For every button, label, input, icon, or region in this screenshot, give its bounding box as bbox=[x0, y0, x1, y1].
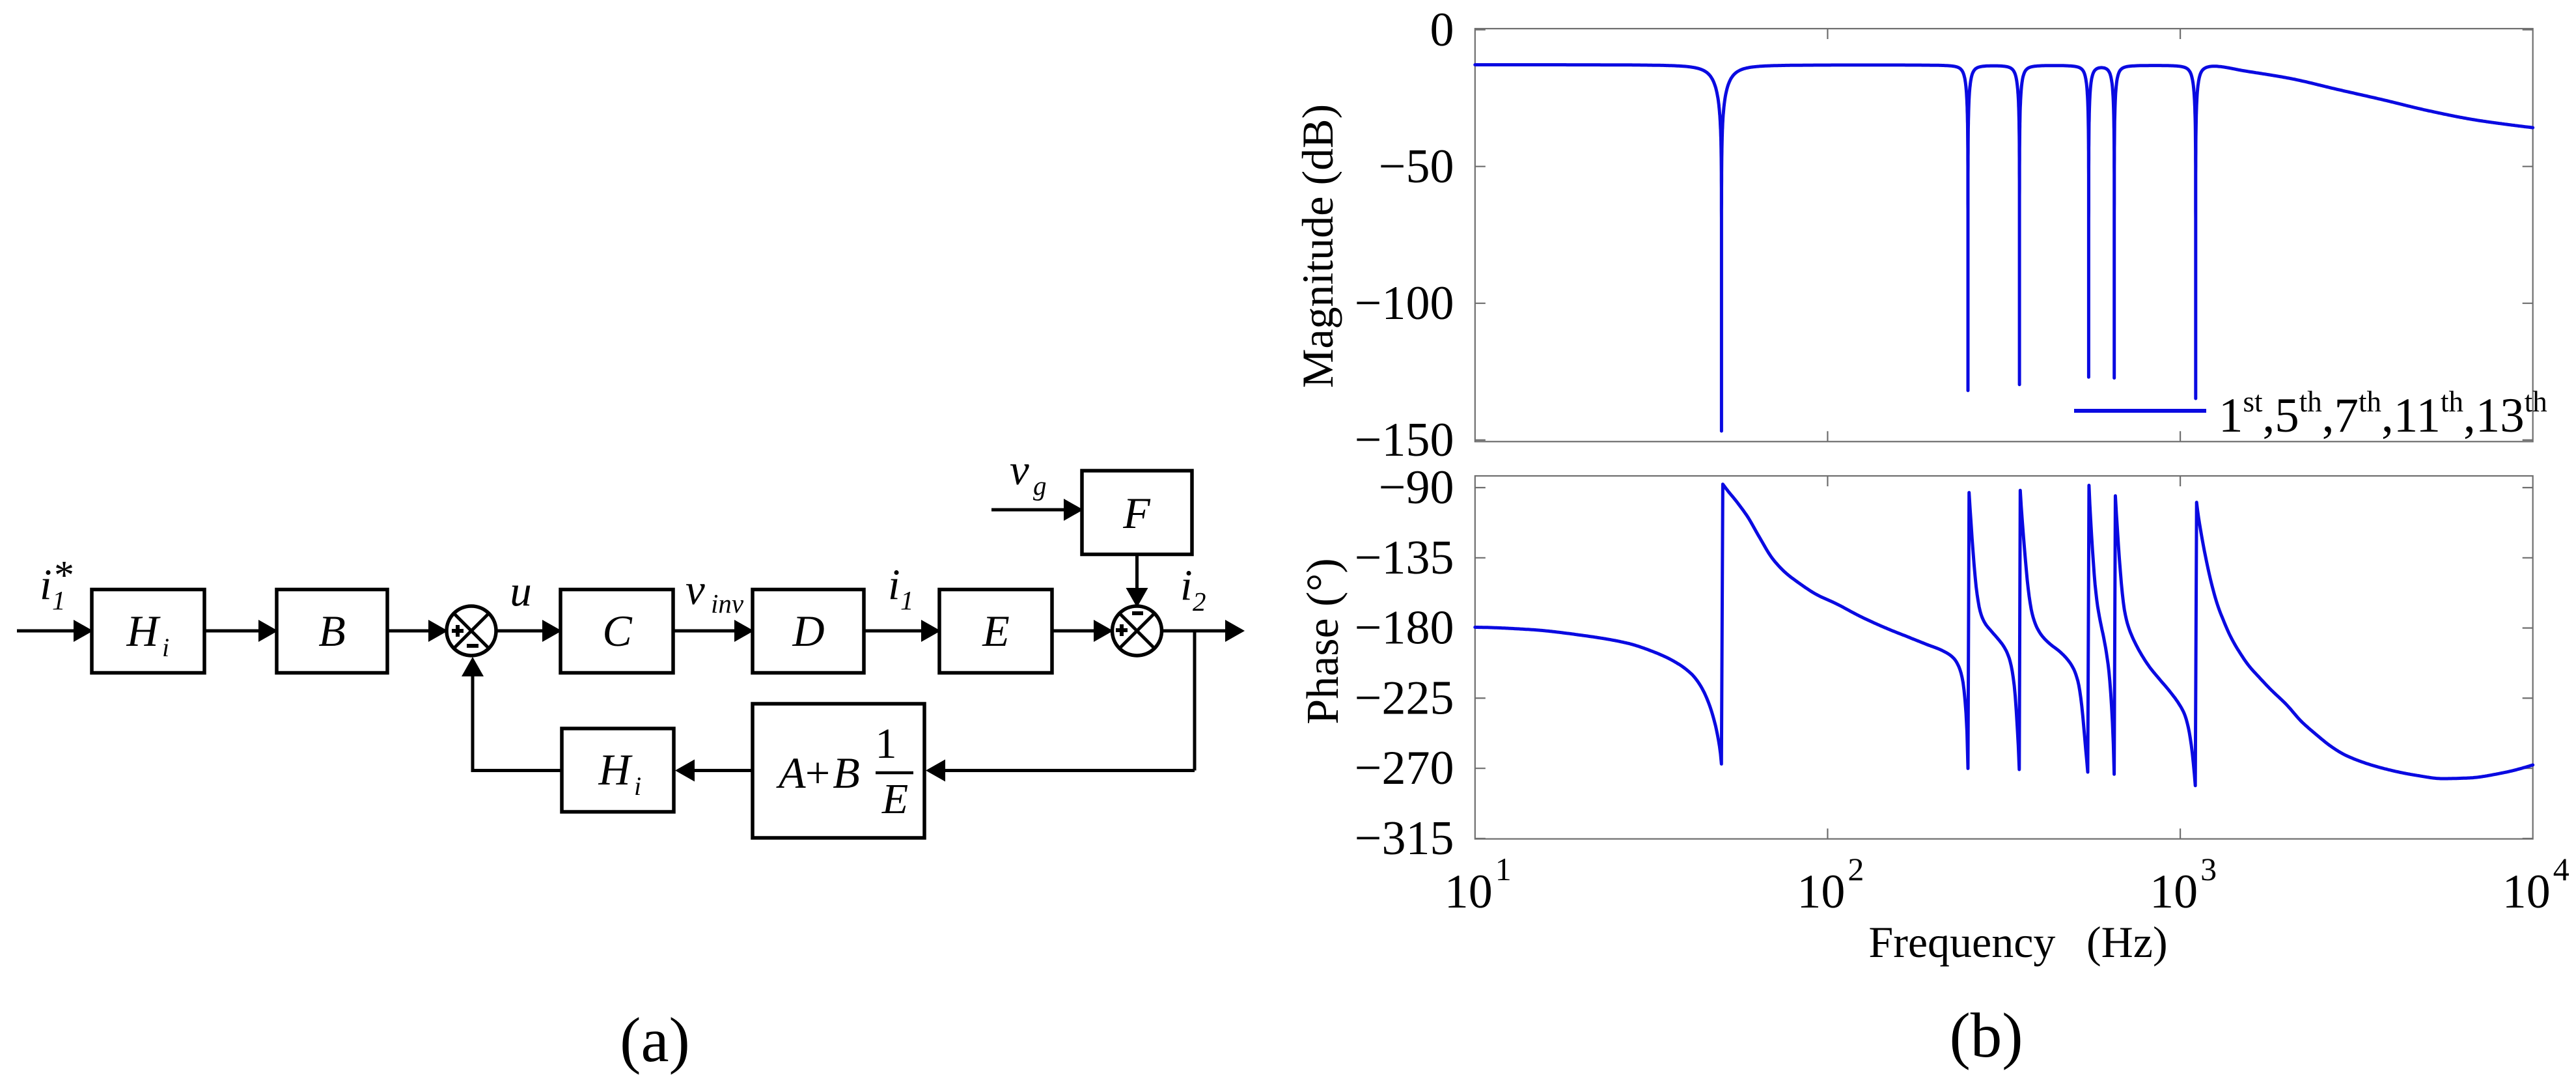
block B bbox=[277, 590, 387, 673]
summing junction sum1 bbox=[447, 606, 496, 656]
block D bbox=[753, 590, 864, 673]
block A+B(1/E) bbox=[753, 704, 924, 838]
svg-text:10: 10 bbox=[2150, 865, 2198, 919]
svg-text:−50: −50 bbox=[1379, 140, 1454, 193]
svg-text:g: g bbox=[1033, 471, 1047, 501]
svg-text:1: 1 bbox=[1495, 851, 1512, 887]
svg-text:i: i bbox=[1180, 561, 1193, 609]
wire E to sum2 bbox=[1052, 630, 1094, 633]
block C bbox=[561, 590, 673, 673]
wire F to sum2 bbox=[1135, 555, 1139, 589]
svg-text:3: 3 bbox=[2200, 851, 2217, 887]
wire Hi feedback to sum1 bbox=[473, 769, 562, 772]
svg-text:E: E bbox=[982, 606, 1010, 656]
phase plot frame bbox=[1475, 476, 2533, 839]
svg-text:1st,5th,7th,11th,13th: 1st,5th,7th,11th,13th bbox=[2219, 385, 2547, 443]
wire B to sum1 bbox=[387, 630, 428, 633]
svg-text:i: i bbox=[888, 561, 900, 609]
svg-text:−270: −270 bbox=[1355, 742, 1454, 795]
svg-text:i: i bbox=[40, 561, 52, 609]
svg-text:i: i bbox=[634, 771, 641, 801]
svg-text:inv: inv bbox=[711, 589, 744, 618]
magnitude plot frame bbox=[1475, 29, 2533, 441]
svg-text:v: v bbox=[1010, 446, 1029, 494]
svg-text:1: 1 bbox=[876, 720, 897, 768]
svg-text:−180: −180 bbox=[1355, 602, 1454, 655]
wire vg to F bbox=[991, 508, 1064, 512]
wire output branch down bbox=[1193, 631, 1197, 771]
wire C to D bbox=[673, 630, 734, 633]
legend line bbox=[2074, 409, 2206, 413]
phase x ticks bbox=[1827, 829, 1828, 839]
svg-text:−225: −225 bbox=[1355, 671, 1454, 725]
svg-text:A: A bbox=[776, 748, 806, 798]
svg-text:2: 2 bbox=[1193, 587, 1206, 617]
svg-text:0: 0 bbox=[1430, 3, 1454, 57]
svg-text:E: E bbox=[881, 775, 908, 823]
wire D to E bbox=[864, 630, 921, 633]
svg-text:−150: −150 bbox=[1355, 413, 1454, 467]
svg-text:B: B bbox=[318, 606, 346, 656]
svg-text:Frequency (Hz): Frequency (Hz) bbox=[1868, 917, 2167, 967]
svg-text:*: * bbox=[54, 553, 74, 598]
svg-text:H: H bbox=[598, 745, 633, 794]
svg-text:Phase (°): Phase (°) bbox=[1298, 558, 1348, 724]
sum2 minus sign bbox=[1132, 611, 1143, 615]
svg-text:2: 2 bbox=[1848, 851, 1864, 887]
phase y ticks bbox=[1475, 487, 1486, 488]
svg-text:Magnitude (dB): Magnitude (dB) bbox=[1293, 104, 1342, 388]
wire sum2 to output bbox=[1162, 630, 1226, 633]
wire sum1 to C bbox=[496, 630, 542, 633]
wire branch to A+B block bbox=[945, 769, 1195, 772]
block Hi feedback bbox=[562, 728, 674, 812]
svg-text:u: u bbox=[510, 567, 532, 615]
svg-text:B: B bbox=[833, 748, 860, 798]
wire A+B to feedback Hi bbox=[695, 769, 753, 772]
svg-text:F: F bbox=[1122, 488, 1151, 538]
svg-text:1: 1 bbox=[900, 585, 914, 615]
svg-text:−90: −90 bbox=[1379, 461, 1454, 514]
magnitude x ticks bbox=[1827, 431, 1828, 441]
phase curve bbox=[1475, 484, 2533, 786]
svg-text:(a): (a) bbox=[620, 1005, 690, 1075]
sum2 plus sign bbox=[1116, 628, 1128, 632]
svg-text:−100: −100 bbox=[1355, 277, 1454, 330]
svg-text:i: i bbox=[162, 633, 169, 662]
svg-text:D: D bbox=[792, 606, 824, 656]
svg-text:4: 4 bbox=[2553, 851, 2569, 887]
svg-text:C: C bbox=[602, 606, 632, 656]
block E bbox=[939, 590, 1052, 673]
svg-text:+: + bbox=[805, 748, 830, 798]
svg-text:10: 10 bbox=[1445, 865, 1493, 919]
svg-text:10: 10 bbox=[2502, 865, 2551, 919]
wire input bbox=[17, 630, 74, 633]
summing junction sum2 bbox=[1113, 606, 1162, 656]
sum1 plus sign bbox=[452, 629, 464, 633]
wire Hi to B bbox=[204, 630, 258, 633]
svg-text:−315: −315 bbox=[1355, 812, 1454, 865]
svg-text:H: H bbox=[126, 606, 161, 656]
magnitude y ticks bbox=[1475, 29, 1486, 30]
block F bbox=[1082, 471, 1192, 555]
magnitude curve 1st,5th,7th,11th,13th bbox=[1475, 65, 2533, 432]
svg-text:−135: −135 bbox=[1355, 531, 1454, 585]
svg-text:v: v bbox=[686, 566, 705, 614]
sum1 minus sign bbox=[467, 644, 478, 648]
block Hi prefilter bbox=[92, 590, 204, 673]
svg-text:(b): (b) bbox=[1949, 1001, 2023, 1070]
svg-text:10: 10 bbox=[1797, 865, 1845, 919]
